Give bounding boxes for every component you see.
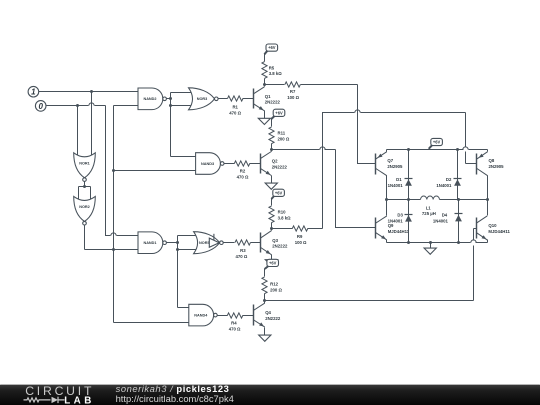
svg-text:Q2: Q2	[272, 159, 278, 164]
resistor R4 470 ohm	[218, 315, 228, 317]
wire: Q2 node to Q9 base	[272, 149, 320, 151]
svg-text:LAB: LAB	[64, 395, 95, 405]
transistor Q8 2N2905	[476, 154, 478, 175]
svg-text:R7: R7	[290, 89, 296, 94]
terminal input 0	[35, 101, 46, 112]
wire: Q7 emitter to rail	[386, 150, 388, 152]
wire: Q9 collector to motor rail	[386, 200, 388, 216]
svg-text:NAND3: NAND3	[201, 162, 214, 166]
svg-text:R4: R4	[231, 321, 237, 326]
ground Q4	[259, 335, 271, 341]
node: junction NOR2net-NAND3B	[112, 169, 115, 172]
svg-text:NOR5: NOR5	[199, 241, 210, 245]
transistor Q2 2N2222	[260, 154, 262, 174]
svg-text:470 Ω: 470 Ω	[229, 110, 241, 115]
wire: Q2 collector	[271, 150, 273, 152]
svg-text:MJD44H11: MJD44H11	[388, 229, 410, 234]
node: Q4 collector node	[263, 299, 266, 302]
svg-text:200 Ω: 200 Ω	[270, 287, 282, 292]
svg-text:D2: D2	[446, 177, 452, 182]
wire: 0-net vertical to NAND1.A	[106, 106, 111, 236]
resistor R1 470 ohm	[219, 98, 228, 100]
resistor R2 470 ohm	[225, 163, 235, 165]
svg-text:NAND4: NAND4	[194, 314, 208, 318]
svg-text:200 Ω: 200 Ω	[278, 137, 290, 142]
wire: +6V to R10	[271, 199, 273, 206]
svg-text:D1: D1	[396, 177, 402, 182]
svg-text:0: 0	[38, 102, 43, 111]
node: junction 0-net	[76, 104, 79, 107]
node: rail-ground	[429, 241, 432, 244]
nor-gate NOR5 with inverter overlay	[194, 232, 220, 254]
power +6V supply V4	[265, 266, 268, 269]
svg-text:1: 1	[31, 88, 36, 97]
svg-text:3.8 kΩ: 3.8 kΩ	[278, 215, 292, 220]
svg-text:100 Ω: 100 Ω	[295, 240, 307, 245]
svg-text:Q4: Q4	[265, 310, 271, 315]
svg-text:NOR3: NOR3	[197, 97, 208, 101]
node: Q3 collector node	[270, 227, 273, 230]
svg-text:+6V: +6V	[433, 140, 441, 145]
svg-text:725 µH: 725 µH	[422, 211, 436, 216]
svg-text:+6V: +6V	[268, 45, 276, 50]
svg-text:R5: R5	[269, 65, 275, 70]
svg-text:1N4001: 1N4001	[436, 183, 452, 188]
wire: R9 to Q8 base	[323, 113, 355, 229]
svg-text:R9: R9	[297, 234, 303, 239]
svg-text:R3: R3	[240, 248, 246, 253]
node: junction NOR2net-NAND1B	[112, 248, 115, 251]
wire: Q4 node to Q10 base	[265, 300, 474, 302]
wire: Q4 emitter to ground	[264, 328, 266, 336]
power +6V supply V5	[429, 145, 432, 149]
svg-text:D4: D4	[442, 213, 448, 218]
svg-text:2N2905: 2N2905	[489, 164, 505, 169]
svg-text:R2: R2	[240, 169, 246, 174]
node: NAND1 output junction	[176, 241, 179, 244]
svg-text:http://circuitlab.com/c8c7pk4: http://circuitlab.com/c8c7pk4	[116, 393, 234, 404]
wire: input 0 to corner	[47, 105, 89, 107]
node: junction 1-net	[90, 90, 93, 93]
svg-text:470 Ω: 470 Ω	[235, 254, 247, 259]
wire: Q9 emitter to ground rail	[386, 240, 388, 243]
svg-text:1N4001: 1N4001	[433, 219, 449, 224]
node: NOR1 output junction	[83, 185, 86, 188]
diode D1 1N4001	[408, 150, 410, 200]
nand-gate NAND4	[189, 304, 214, 326]
wire: input 1 to NAND2.A	[39, 91, 139, 93]
svg-text:MJD44H11: MJD44H11	[488, 229, 510, 234]
node: rail-D1 junction	[407, 148, 410, 151]
svg-text:1N4001: 1N4001	[388, 219, 404, 224]
node: rail-D4	[457, 241, 460, 244]
footer bar	[0, 385, 540, 405]
power +6V supply V2	[271, 116, 274, 119]
svg-text:NOR2: NOR2	[79, 205, 90, 209]
node: midrail-Q8Q10	[486, 198, 489, 201]
diode D4 1N4001	[458, 200, 460, 243]
wire: Q1 emitter to ground	[264, 111, 266, 119]
wire: +6V to R5	[264, 54, 266, 62]
wire: Q2 emitter to ground	[271, 176, 273, 184]
svg-text:+6V: +6V	[275, 190, 283, 195]
svg-text:Q9: Q9	[388, 223, 394, 228]
wire: Q10 collector to motor rail	[487, 200, 489, 216]
nor-gate NOR2	[74, 196, 96, 221]
svg-text:Q1: Q1	[265, 94, 271, 99]
wire: NAND2 output to NOR3 inputs and NAND3.A	[167, 98, 171, 100]
ground Q3	[265, 260, 277, 266]
transistor Q1 2N2222	[253, 89, 255, 109]
diode D3 1N4001	[408, 200, 410, 243]
svg-text:470 Ω: 470 Ω	[237, 174, 249, 179]
ground Q1	[258, 118, 270, 124]
svg-text:Q8: Q8	[489, 158, 495, 163]
node: rail-D3	[407, 241, 410, 244]
svg-text:L1: L1	[426, 206, 432, 211]
wire: top +6V rail	[387, 149, 464, 151]
svg-text:470 Ω: 470 Ω	[229, 326, 241, 331]
wire: Q8 emitter stub	[487, 150, 489, 152]
transistor Q10 MJD44H11	[476, 218, 478, 239]
ground Q2	[265, 183, 277, 189]
resistor R11 200 ohm	[269, 127, 274, 144]
svg-text:Q3: Q3	[272, 238, 278, 243]
svg-text:R11: R11	[278, 131, 286, 136]
svg-text:+6V: +6V	[275, 110, 283, 115]
transistor Q4 2N2222	[253, 305, 255, 326]
logo resistor-diode glyph	[24, 398, 65, 402]
wire: Q1 collector	[264, 85, 266, 87]
resistor R5 3.8k	[262, 62, 267, 79]
wire: NAND1 output to NOR5 inputs and NAND4.A	[167, 242, 178, 244]
nor-gate NOR1	[74, 153, 96, 178]
svg-text:D3: D3	[397, 213, 403, 218]
svg-text:R10: R10	[278, 210, 286, 215]
svg-text:+6V: +6V	[269, 260, 277, 265]
wire: NOR1 output split to NOR2 inputs	[84, 182, 86, 187]
nor-gate NOR3	[189, 88, 215, 110]
wire: +6V to R12	[264, 269, 266, 277]
wire: R7 to Q7 base	[358, 85, 376, 164]
node: midrail-D2D4	[457, 198, 460, 201]
wire: NOR2 output down and right	[84, 225, 86, 250]
svg-text:R1: R1	[232, 105, 238, 110]
svg-text:Q7: Q7	[387, 158, 393, 163]
ground H-bridge	[430, 243, 432, 249]
transistor Q7 2N2905	[375, 154, 377, 175]
node: junction NAND2out-NOR3B	[169, 104, 172, 107]
resistor R10 3.8k	[269, 206, 274, 223]
wire: Q4 collector	[264, 301, 266, 304]
svg-text:2N2222: 2N2222	[265, 100, 281, 105]
svg-text:2N2905: 2N2905	[387, 164, 403, 169]
wire: motor mid rail	[387, 199, 421, 201]
svg-text:R12: R12	[270, 282, 278, 287]
svg-text:2N2222: 2N2222	[272, 244, 288, 249]
wire: Q3 collector	[271, 229, 273, 231]
nand-gate NAND3	[196, 153, 221, 175]
svg-text:Q10: Q10	[488, 223, 497, 228]
resistor R9 100 ohm	[272, 228, 293, 230]
node: Q2 collector node	[270, 148, 273, 151]
svg-text:2N2222: 2N2222	[265, 316, 281, 321]
nand-gate NAND1	[138, 232, 163, 254]
wire: Q7 collector to motor rail	[386, 176, 388, 200]
wire: Q8 collector down	[487, 176, 489, 200]
resistor R3 470 ohm	[224, 242, 235, 244]
nand-gate NAND2	[138, 88, 163, 110]
inductor L1 725uH	[421, 196, 440, 199]
svg-text:3.8 kΩ: 3.8 kΩ	[269, 71, 283, 76]
node: rail-D2 junction	[456, 148, 459, 151]
svg-text:NAND2: NAND2	[143, 97, 156, 101]
node: junction NAND1out-NOR5B	[176, 248, 179, 251]
wire: bottom ground rail	[387, 242, 471, 244]
power +6V supply V3	[271, 196, 274, 199]
diode D2 1N4001	[457, 150, 459, 200]
node: Q1 collector node	[263, 83, 266, 86]
node: midrail-D1D3	[407, 198, 410, 201]
svg-text:1N4001: 1N4001	[388, 183, 404, 188]
wire: Q10 emitter to ground rail	[487, 240, 489, 243]
wire: 1-net down to NOR1 input B	[91, 92, 93, 159]
wire: 0-net down to NOR1 input A	[77, 106, 79, 159]
wire: Q3 emitter to ground	[271, 255, 273, 260]
power +6V supply V1	[264, 51, 267, 55]
transistor Q9 MJD44H11	[375, 218, 377, 239]
svg-text:100 Ω: 100 Ω	[287, 95, 299, 100]
svg-text:2N2222: 2N2222	[272, 164, 288, 169]
resistor R7 100 ohm	[265, 84, 285, 86]
svg-text:NOR1: NOR1	[79, 161, 90, 165]
wire: +6V to R11	[271, 119, 273, 127]
node: midrail-Q7Q9	[385, 198, 388, 201]
node: NAND2 output junction	[169, 97, 172, 100]
terminal input 1	[28, 86, 39, 97]
resistor R12 200 ohm	[262, 277, 267, 294]
transistor Q3 2N2222	[260, 233, 262, 253]
svg-text:NAND1: NAND1	[143, 241, 156, 245]
wire: NOR2-out net vertical x=113.5	[113, 106, 115, 323]
